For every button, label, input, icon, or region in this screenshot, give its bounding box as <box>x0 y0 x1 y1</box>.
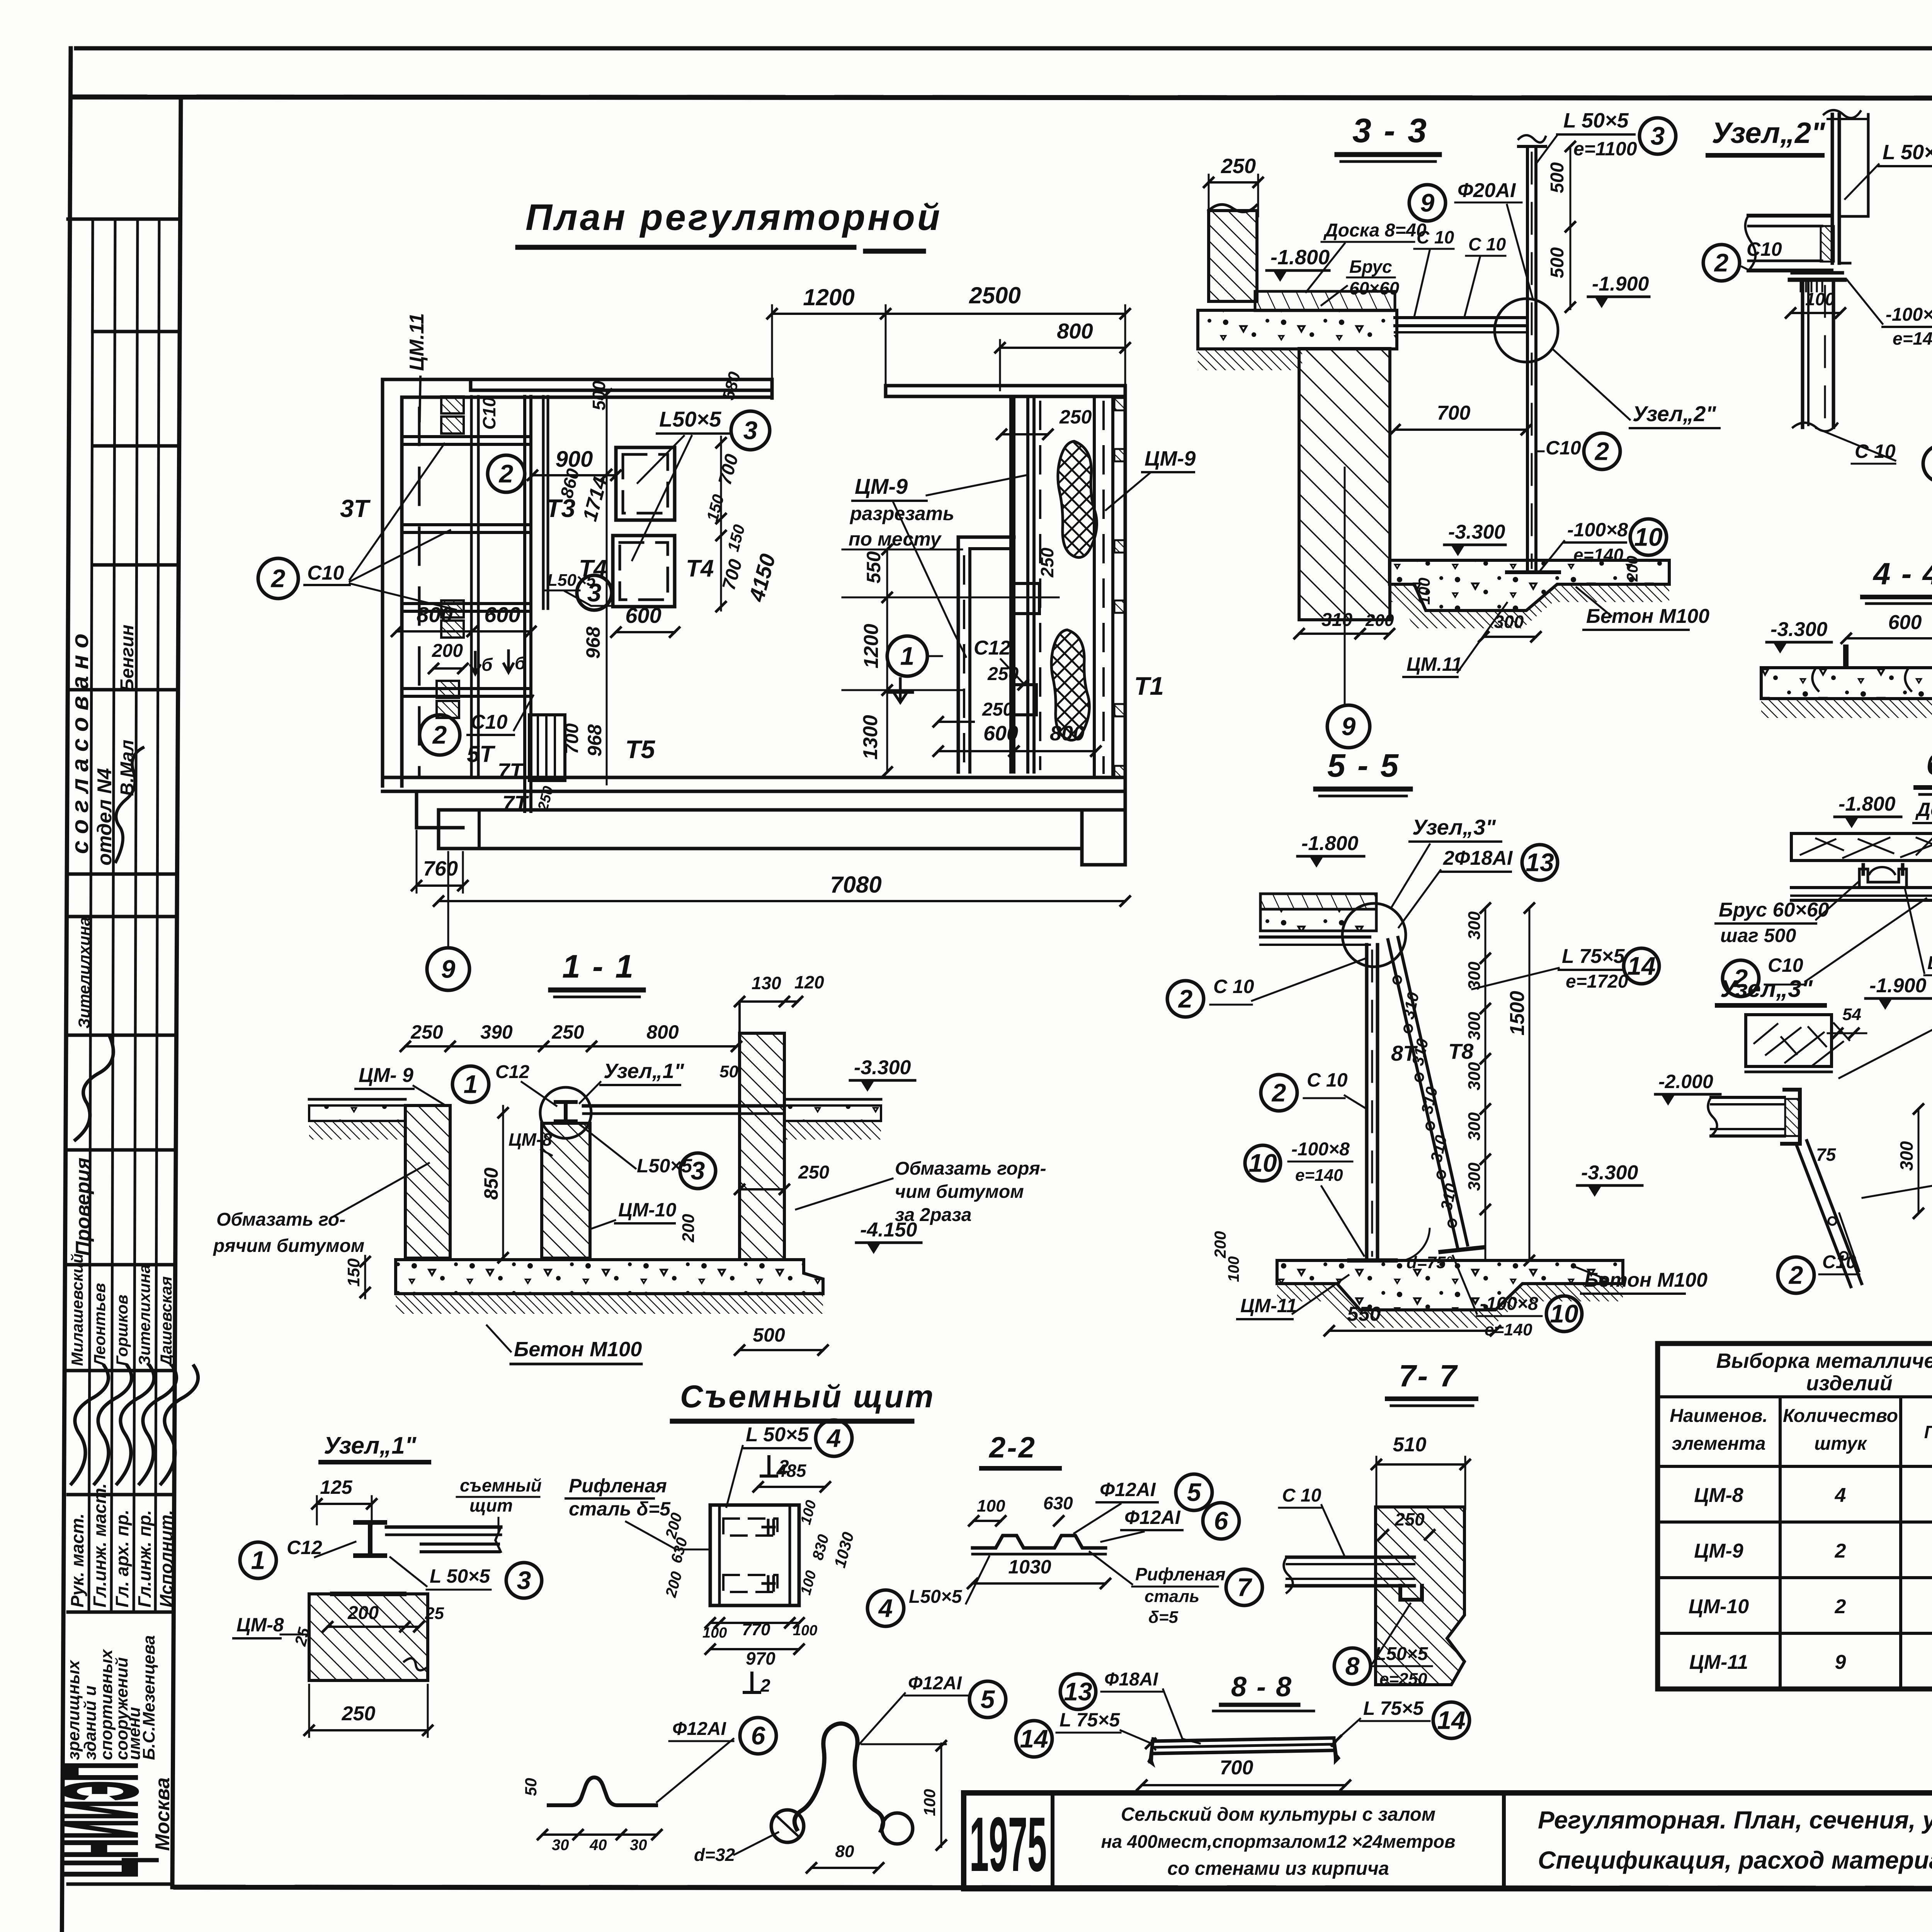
6-6 plank band <box>1791 833 1932 861</box>
svg-text:с о г л а с о в а н о: с о г л а с о в а н о <box>67 634 94 854</box>
svg-text:7Т: 7Т <box>502 791 529 815</box>
узел3 label L90x56x8 e=100 circle 12 <box>1839 1001 1932 1078</box>
svg-text:2: 2 <box>1594 437 1609 465</box>
svg-text:3: 3 <box>743 416 758 444</box>
1-1 channel floor plate between <box>583 1106 784 1114</box>
plan section marks <box>340 494 1164 815</box>
svg-text:-1.900: -1.900 <box>1869 975 1927 997</box>
svg-text:3: 3 <box>691 1156 705 1185</box>
svg-text:-4.150: -4.150 <box>860 1219 917 1241</box>
svg-text:25: 25 <box>425 1604 444 1623</box>
svg-text:10: 10 <box>1248 1148 1277 1177</box>
узел2 lower C10 post <box>1793 280 1837 431</box>
1-1 ground hatch below slab <box>396 1294 823 1314</box>
3-3 upper brick wall <box>1209 211 1257 301</box>
svg-text:250: 250 <box>987 664 1019 684</box>
1-1 floor line right <box>784 1099 881 1139</box>
3-3 dim 500/500 vertical <box>1547 142 1575 312</box>
1-1 middle pier hatched <box>542 1123 590 1258</box>
3-3 level -3.300 <box>1444 521 1505 556</box>
7-7 hatched wall <box>1376 1507 1464 1685</box>
title block sheet name <box>1538 1806 1932 1874</box>
svg-text:1: 1 <box>251 1546 265 1574</box>
svg-text:300: 300 <box>1465 961 1484 990</box>
plan: right room enclosure <box>958 396 1040 772</box>
svg-text:-1.800: -1.800 <box>1301 832 1359 855</box>
svg-text:9: 9 <box>1420 188 1435 217</box>
5-5 dim 550 <box>1325 1303 1500 1335</box>
table Выборка металлических изделий <box>1658 1344 1932 1689</box>
3-3 label Узел 2 leader <box>1553 350 1719 428</box>
svg-text:1975: 1975 <box>969 1801 1047 1888</box>
svg-text:С10: С10 <box>307 562 344 584</box>
svg-text:8 - 8: 8 - 8 <box>1231 1672 1293 1702</box>
узел2 dim 100 <box>1786 289 1845 318</box>
узел2 horizontal beam C10 <box>1745 216 1834 270</box>
section 1-1 title <box>551 948 643 997</box>
svg-text:900: 900 <box>556 447 593 472</box>
svg-text:Т3: Т3 <box>546 494 575 522</box>
1-1 label Узел 1 <box>580 1060 685 1103</box>
svg-text:Ф12АI: Ф12АI <box>1124 1507 1181 1528</box>
svg-text:9: 9 <box>1835 1651 1846 1673</box>
узел1 circle 1 C12 <box>240 1537 355 1578</box>
svg-text:100: 100 <box>793 1622 817 1639</box>
3-3 level -1.900 <box>1588 273 1649 308</box>
7-7 beam into wall <box>1284 1557 1422 1600</box>
2-2 dims 100/630 <box>969 1493 1073 1526</box>
узел3 C10 horizontal member <box>1708 1090 1800 1144</box>
3-3 ground hatch under slab left <box>1198 349 1302 370</box>
section 4-4 title <box>1862 556 1932 604</box>
svg-text:500: 500 <box>753 1324 785 1346</box>
svg-text:сталь δ=5: сталь δ=5 <box>569 1498 671 1520</box>
plan circle 2 upper <box>488 455 525 492</box>
5-5 ground hatch <box>1277 1284 1623 1328</box>
section 8-8 title <box>1213 1672 1314 1711</box>
shape loop ф12AI circle 5 d=32 <box>694 1673 1006 1872</box>
plan circle 1 with C12 <box>887 636 1023 702</box>
title: План регуляторной <box>518 197 942 251</box>
svg-text:-1.800: -1.800 <box>1270 246 1330 269</box>
8-8 panel assembly <box>1146 1736 1341 1764</box>
узел3 label L75x5 circle 14 <box>1862 1160 1932 1201</box>
plan circle 3 lower with L50x5 <box>545 571 613 610</box>
узел2 circle 2 C10 left upper <box>1703 238 1782 281</box>
svg-text:Зителихина: Зителихина <box>135 1264 153 1366</box>
svg-text:600: 600 <box>983 722 1018 745</box>
5-5 angle d=75 <box>1406 1229 1453 1272</box>
svg-text:е=1100: е=1100 <box>1573 138 1637 160</box>
section 3-3 title <box>1337 111 1439 162</box>
2-2 label Рифленая сталь circle 7 <box>1090 1552 1262 1627</box>
1-1 dim 250 right <box>735 1162 829 1194</box>
svg-text:100: 100 <box>1225 1256 1242 1282</box>
щит dims right 100/830/100/1030 <box>798 1498 857 1597</box>
svg-text:Рук. маст.: Рук. маст. <box>67 1514 87 1607</box>
svg-text:Доска 8=40: Доска 8=40 <box>1323 220 1427 241</box>
5-5 label ЦМ-11 <box>1237 1275 1349 1319</box>
svg-text:-2.000: -2.000 <box>1658 1071 1713 1092</box>
svg-text:С 10: С 10 <box>1468 234 1506 254</box>
node Узел 2 title <box>1708 117 1825 155</box>
svg-text:30: 30 <box>552 1837 569 1854</box>
svg-text:968: 968 <box>584 724 605 757</box>
svg-text:30: 30 <box>630 1837 647 1854</box>
svg-text:250: 250 <box>1221 155 1256 178</box>
svg-text:ЦМ-9: ЦМ-9 <box>855 474 908 498</box>
svg-text:Узел„3": Узел„3" <box>1720 976 1813 1002</box>
узел1 label L50x5 circle 3 <box>390 1557 542 1598</box>
svg-text:300: 300 <box>1465 1012 1484 1040</box>
svg-text:3: 3 <box>1651 121 1665 150</box>
plan label ЦМ-9 right <box>1106 447 1196 510</box>
svg-text:-1.900: -1.900 <box>1592 273 1649 295</box>
svg-text:Узел„2": Узел„2" <box>1633 401 1716 426</box>
svg-text:100: 100 <box>977 1497 1005 1515</box>
svg-text:Выборка металлических: Выборка металлических <box>1716 1349 1932 1372</box>
svg-text:е=250: е=250 <box>1379 1670 1427 1689</box>
8-8 circle 14 left L75x5 <box>1016 1709 1155 1757</box>
node Узел 1 title <box>321 1432 429 1462</box>
2-2 circle 4 L50x5 <box>867 1556 989 1626</box>
3-3 node circle for Узел 2 <box>1495 299 1558 362</box>
svg-text:С 10: С 10 <box>1282 1485 1321 1506</box>
svg-text:150: 150 <box>344 1258 363 1287</box>
svg-text:Проверия: Проверия <box>72 1158 94 1256</box>
3-3 dims 310/200/100/300 <box>1294 556 1641 641</box>
svg-text:ЦМ- 9: ЦМ- 9 <box>359 1064 413 1087</box>
1-1 dim 850 rotated <box>480 1106 508 1262</box>
svg-text:100: 100 <box>1415 578 1433 605</box>
щит label Рифленая сталь <box>566 1475 711 1549</box>
svg-text:-100×8: -100×8 <box>1886 304 1932 325</box>
svg-text:L 50×5: L 50×5 <box>746 1423 809 1446</box>
3-3 floor slab left <box>1198 310 1397 349</box>
svg-text:Ф20АI: Ф20АI <box>1458 179 1516 202</box>
plan circle 3 upper with L50x5 <box>632 407 770 560</box>
svg-text:4: 4 <box>878 1594 893 1622</box>
узел2 L50x5 label circle 3 <box>1845 141 1932 199</box>
svg-text:е=1720: е=1720 <box>1566 971 1628 992</box>
svg-text:С12: С12 <box>974 637 1010 659</box>
1-1 level -4.150 <box>856 1219 921 1254</box>
5-5 label -100x8 e=140 circle 10 right <box>1453 1256 1582 1339</box>
svg-text:4 - 4: 4 - 4 <box>1872 556 1932 591</box>
svg-text:Обмазать горя-: Обмазать горя- <box>895 1158 1046 1179</box>
svg-text:L 40=4: L 40=4 <box>1927 953 1932 973</box>
1-1 I-beam in node <box>556 1102 576 1121</box>
svg-text:5Т: 5Т <box>467 741 495 767</box>
svg-text:6: 6 <box>751 1721 766 1750</box>
plan: inner partition verticals <box>525 396 548 811</box>
3-3 circle 9 below <box>1327 468 1370 748</box>
svg-text:125: 125 <box>320 1476 353 1498</box>
svg-text:Ф18АI: Ф18АI <box>1104 1669 1159 1690</box>
svg-text:7Т: 7Т <box>498 759 525 783</box>
svg-text:d=32: d=32 <box>694 1845 735 1865</box>
щит dims left 200/630/200 <box>662 1511 691 1599</box>
5-5 floor deck top left <box>1260 894 1376 945</box>
svg-text:14: 14 <box>1627 951 1655 980</box>
3-3 labels C10 over beam <box>1414 227 1506 317</box>
svg-text:1500: 1500 <box>1506 991 1529 1036</box>
plan: channel members C10 <box>402 437 531 696</box>
title block project description <box>1101 1804 1455 1879</box>
svg-text:Бетон М100: Бетон М100 <box>1586 605 1709 628</box>
svg-text:8Т: 8Т <box>1391 1041 1418 1065</box>
svg-text:-100×8: -100×8 <box>1480 1294 1538 1314</box>
svg-text:250: 250 <box>1059 406 1092 428</box>
svg-text:630: 630 <box>1043 1493 1073 1513</box>
3-3 circle 9 ф20AI <box>1409 179 1532 298</box>
svg-text:100: 100 <box>1805 289 1835 309</box>
svg-text:550: 550 <box>863 551 884 583</box>
svg-text:1030: 1030 <box>1008 1556 1051 1578</box>
plan label ЦМ-9 разрезать по месту <box>849 474 1026 657</box>
svg-text:Ф12АI: Ф12АI <box>908 1673 963 1694</box>
plan: vent grille <box>529 715 565 781</box>
1-1 level -3.300 right <box>850 1056 915 1092</box>
plan dim 600/800 bottom right <box>934 722 1100 756</box>
svg-text:С10: С10 <box>471 711 507 733</box>
svg-text:Москва: Москва <box>151 1777 174 1851</box>
inner frame top <box>73 97 1932 99</box>
plan leader to circle 9 of section 1-1 <box>427 852 469 990</box>
узел1 panel plates <box>386 1527 501 1552</box>
svg-text:рячим битумом: рячим битумом <box>213 1236 364 1256</box>
svg-text:ЦМ-8: ЦМ-8 <box>509 1129 552 1150</box>
5-5 node circle <box>1342 903 1406 967</box>
plan dim 500/580 rotated <box>589 369 745 784</box>
2-2 dim 1030 <box>968 1556 1110 1588</box>
svg-text:зрелищных: зрелищных <box>64 1660 83 1760</box>
svg-text:сталь: сталь <box>1145 1587 1199 1606</box>
svg-text:е=140: е=140 <box>1893 328 1932 349</box>
svg-text:-3.300: -3.300 <box>1770 618 1828 641</box>
5-5 label 2ф18AI circle 13 <box>1399 845 1558 927</box>
svg-text:Рифленая: Рифленая <box>569 1475 667 1497</box>
7-7 label C10 <box>1279 1485 1345 1556</box>
svg-text:5: 5 <box>981 1685 995 1713</box>
svg-text:Доска δ=40: Доска δ=40 <box>1915 799 1932 820</box>
1-1 label ЦМ-10 <box>591 1199 677 1229</box>
svg-text:968: 968 <box>582 626 604 659</box>
svg-text:б: б <box>481 655 493 675</box>
svg-text:ЦМ.11: ЦМ.11 <box>406 313 428 371</box>
svg-text:-100×8: -100×8 <box>1567 519 1628 541</box>
svg-text:2: 2 <box>1835 1595 1846 1618</box>
svg-text:700: 700 <box>1220 1757 1253 1779</box>
svg-text:970: 970 <box>746 1648 776 1668</box>
svg-text:200: 200 <box>347 1603 379 1623</box>
svg-text:300: 300 <box>1465 1062 1484 1090</box>
stamp signatures row <box>71 1366 109 1484</box>
svg-text:800: 800 <box>1050 722 1085 745</box>
svg-text:800: 800 <box>1057 319 1093 343</box>
svg-text:Б.С.Мезенцева: Б.С.Мезенцева <box>139 1635 158 1760</box>
5-5 level -3.300 <box>1577 1162 1642 1197</box>
svg-text:С 10: С 10 <box>1417 227 1454 247</box>
узел3 level -2.000 <box>1655 1071 1720 1105</box>
svg-text:80: 80 <box>835 1842 854 1861</box>
svg-text:2: 2 <box>432 720 447 749</box>
5-5 label -100x8 e=140 circle 10 left <box>1245 1139 1364 1256</box>
узел2 lower C10 circle 2 <box>1816 428 1932 482</box>
5-5 section marks 8 <box>1391 1039 1474 1065</box>
plan dim 900/860/1714 <box>528 447 621 524</box>
svg-text:7080: 7080 <box>830 872 881 898</box>
svg-text:390: 390 <box>480 1021 513 1043</box>
5-5 label L75x5 e=1720 circle 14 <box>1472 945 1659 992</box>
stamp signature squiggle top <box>116 748 143 862</box>
plan dim 760 <box>412 831 468 893</box>
svg-text:Т5: Т5 <box>625 735 655 764</box>
svg-text:250: 250 <box>342 1702 376 1725</box>
узел3 level -1.900 <box>1866 975 1932 1010</box>
svg-text:Ф12АI: Ф12АI <box>672 1719 727 1739</box>
svg-text:шаг 500: шаг 500 <box>1720 925 1796 946</box>
svg-text:на 400мест,спортзалом12 ×24мет: на 400мест,спортзалом12 ×24метров <box>1101 1831 1455 1852</box>
svg-text:Бенгин: Бенгин <box>117 624 138 692</box>
svg-text:-1.800: -1.800 <box>1838 793 1896 815</box>
щит label L50x5 circle 4 <box>726 1420 852 1507</box>
svg-text:-3.300: -3.300 <box>1448 521 1505 543</box>
svg-text:Бетон М100: Бетон М100 <box>1584 1269 1708 1291</box>
svg-text:Милашевский: Милашевский <box>68 1253 86 1366</box>
5-5 diagonal brace ladder <box>1388 937 1468 1247</box>
svg-text:2: 2 <box>270 564 286 592</box>
svg-text:элемента: элемента <box>1672 1434 1766 1454</box>
plan: left wall dashed axis <box>418 408 421 775</box>
svg-text:б: б <box>515 653 526 673</box>
1-1 label Бетон М100 <box>487 1325 642 1364</box>
узел3 dim 54 <box>1828 1005 1866 1038</box>
section 6-6 title <box>1916 747 1932 794</box>
svg-text:ЦМ-10: ЦМ-10 <box>618 1199 677 1221</box>
svg-text:чим битумом: чим битумом <box>895 1182 1024 1202</box>
svg-text:600: 600 <box>484 602 520 627</box>
svg-text:Зителилхина: Зителилхина <box>75 917 93 1029</box>
svg-text:Обмазать го-: Обмазать го- <box>216 1209 345 1230</box>
svg-text:L 50×5: L 50×5 <box>1563 109 1629 132</box>
svg-text:60×60: 60×60 <box>1349 278 1400 298</box>
svg-text:50: 50 <box>719 1062 738 1081</box>
svg-text:Узел„3": Узел„3" <box>1412 815 1496 839</box>
svg-text:3: 3 <box>517 1566 531 1594</box>
5-5 circle 2 C10 upper <box>1167 958 1366 1017</box>
svg-text:2: 2 <box>760 1675 770 1696</box>
svg-text:13: 13 <box>1526 848 1554 876</box>
svg-text:2: 2 <box>498 459 514 488</box>
6-6 circle 2 C10 <box>1723 898 1926 997</box>
узел3 dim 75 + 300 <box>1816 1104 1923 1218</box>
svg-text:С12: С12 <box>495 1062 529 1082</box>
svg-text:14: 14 <box>1020 1724 1048 1753</box>
svg-text:Бетон М100: Бетон М100 <box>514 1338 642 1361</box>
svg-text:Горшков: Горшков <box>113 1294 131 1366</box>
svg-text:Брус 60×60: Брус 60×60 <box>1719 899 1829 921</box>
svg-text:Леонтьев: Леонтьев <box>90 1283 109 1367</box>
5-5 base plates <box>1349 1247 1484 1260</box>
узел1 concrete block <box>309 1594 428 1680</box>
узел1 label съемный щит <box>457 1475 542 1532</box>
svg-text:5 - 5: 5 - 5 <box>1327 747 1400 784</box>
svg-text:2-2: 2-2 <box>988 1431 1036 1464</box>
plan circle 2 lower with C10 <box>420 696 533 755</box>
3-3 big hatched pier <box>1299 349 1390 620</box>
svg-text:250: 250 <box>1395 1509 1425 1529</box>
3-3 label ЦМ-11 <box>1403 603 1507 677</box>
svg-text:Спецификация, расход материало: Спецификация, расход материалов. <box>1538 1846 1932 1874</box>
svg-text:С12: С12 <box>287 1537 322 1558</box>
outer sheet border left <box>62 48 71 1932</box>
svg-text:250: 250 <box>410 1021 443 1043</box>
svg-text:Т4: Т4 <box>579 555 607 582</box>
5-5 dim chain 300x5 + 1500 <box>1465 903 1534 1265</box>
1-1 right wall hatched <box>740 1002 784 1260</box>
svg-text:100: 100 <box>702 1625 727 1641</box>
svg-text:510: 510 <box>1393 1434 1427 1456</box>
3-3 label L50x5 e=1100 circle 3 <box>1537 109 1676 162</box>
svg-text:9: 9 <box>441 954 456 983</box>
svg-text:ЦМ-10: ЦМ-10 <box>1689 1595 1749 1618</box>
svg-text:L 75×5: L 75×5 <box>1060 1709 1120 1731</box>
svg-text:4: 4 <box>826 1423 841 1452</box>
plan: wall anchors on right wall <box>1114 398 1124 778</box>
svg-text:200: 200 <box>1211 1231 1229 1259</box>
svg-text:L 75×5: L 75×5 <box>1363 1697 1424 1719</box>
3-3 level -1.800 <box>1267 246 1330 282</box>
section 7-7 title <box>1387 1359 1476 1406</box>
svg-text:200: 200 <box>432 641 463 661</box>
1-1 floor line left <box>309 1099 405 1139</box>
6-6 level -1.800 <box>1835 793 1901 828</box>
svg-text:3Т: 3Т <box>340 495 371 522</box>
plan: bottom apron/footing <box>417 791 1125 865</box>
5-5 label Узел 3 leader <box>1391 815 1501 908</box>
svg-text:300: 300 <box>1896 1141 1917 1171</box>
svg-text:Гл.инж. пр.: Гл.инж. пр. <box>134 1510 155 1607</box>
svg-text:1300: 1300 <box>859 715 882 760</box>
svg-text:800: 800 <box>646 1021 679 1043</box>
svg-text:Гл.инж. маст.: Гл.инж. маст. <box>90 1483 110 1607</box>
plan: framed opening square 2 <box>613 536 675 607</box>
svg-text:L50×5: L50×5 <box>659 407 721 431</box>
щит section mark 2 top <box>761 1457 789 1477</box>
svg-text:8: 8 <box>1345 1651 1360 1680</box>
svg-text:850: 850 <box>480 1167 502 1200</box>
3-3 vertical post with L50x5 label <box>1519 135 1546 572</box>
svg-text:2: 2 <box>1835 1540 1846 1562</box>
svg-text:С10: С10 <box>1546 437 1581 459</box>
svg-text:2: 2 <box>1714 248 1729 277</box>
svg-text:500: 500 <box>1547 247 1568 278</box>
plan right dim chain 550/1200/1300 <box>842 545 1059 777</box>
plan: framed opening square 1 <box>616 447 675 520</box>
svg-text:L 75×5: L 75×5 <box>1562 945 1625 968</box>
svg-text:штук: штук <box>1814 1434 1867 1454</box>
node Узел 3 title <box>1717 976 1825 1005</box>
svg-text:Регуляторная. План, сечения,: Регуляторная. План, сечения, узлы. <box>1538 1806 1932 1834</box>
svg-text:Т1: Т1 <box>1134 672 1164 700</box>
svg-text:щит: щит <box>469 1495 513 1515</box>
svg-text:7- 7: 7- 7 <box>1399 1359 1458 1393</box>
svg-text:ЦМ-9: ЦМ-9 <box>1145 447 1196 470</box>
svg-text:е=140: е=140 <box>1295 1166 1343 1185</box>
svg-text:4: 4 <box>1835 1484 1846 1507</box>
3-3 ground hatch bottom <box>1389 584 1669 628</box>
